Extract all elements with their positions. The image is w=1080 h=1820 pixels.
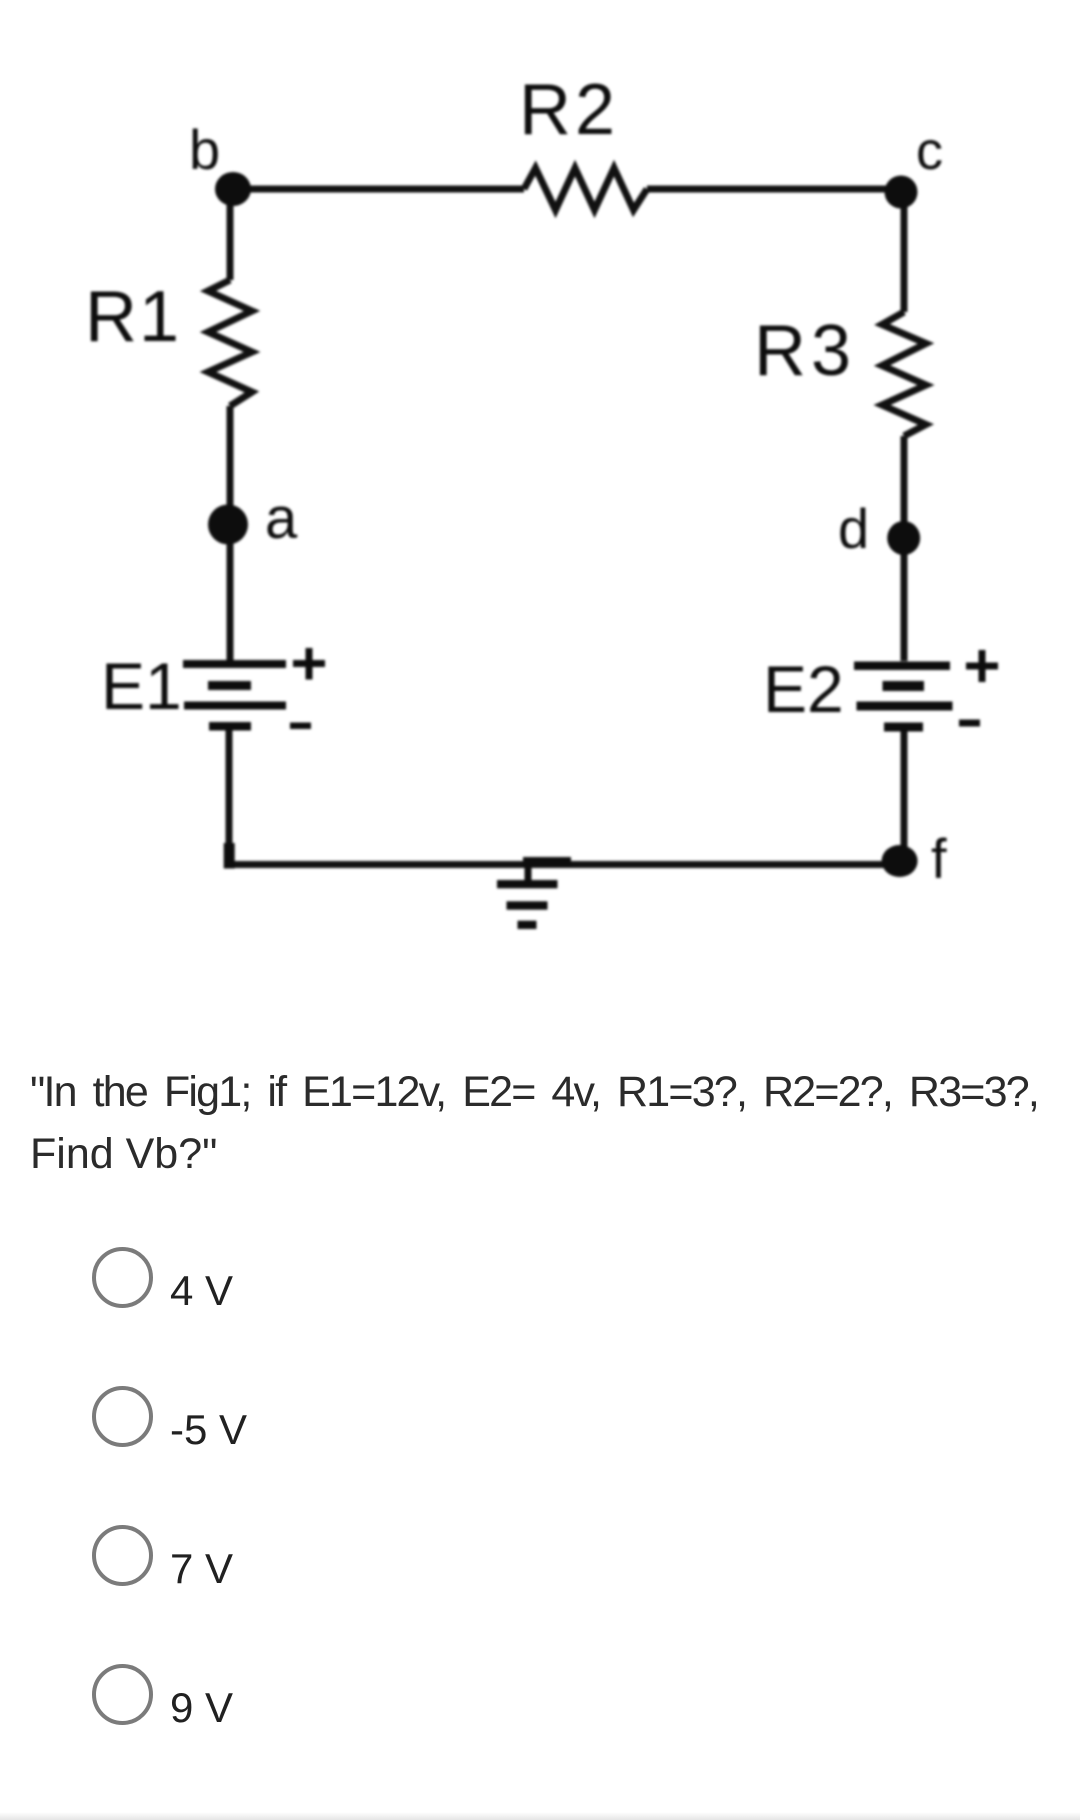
wire R1 to node a to E1 <box>227 406 234 661</box>
svg-text:R3: R3 <box>754 311 856 391</box>
wire top-left: b to R2 <box>233 186 524 193</box>
svg-text:E2: E2 <box>763 652 844 726</box>
svg-text:E1: E1 <box>101 649 182 723</box>
svg-text:a: a <box>265 486 298 551</box>
E1 minus sign <box>290 723 311 730</box>
wire E2 to node f <box>901 730 908 858</box>
wire E1 to bottom-left corner <box>226 729 233 861</box>
resistor R2 <box>524 168 647 210</box>
wire c down to R3 <box>901 192 908 312</box>
node c <box>885 176 918 209</box>
wire R3 to node d to E2 <box>901 436 908 661</box>
wire b down to R1 <box>227 189 234 280</box>
E2 minus sign <box>959 720 980 727</box>
node f <box>882 845 918 877</box>
ground symbol <box>523 857 571 866</box>
resistor R1 <box>208 280 252 406</box>
svg-text:d: d <box>838 497 869 560</box>
E1 plus sign <box>306 648 313 680</box>
svg-text:f: f <box>931 827 947 890</box>
battery E1 plate short bottom <box>209 722 251 731</box>
svg-text:b: b <box>189 118 220 181</box>
svg-text:c: c <box>916 121 943 181</box>
battery E2 plate short mid <box>883 681 925 691</box>
circuit figure <box>0 0 1080 1010</box>
option 1 <box>92 1247 153 1308</box>
node a <box>208 505 248 545</box>
bottom edge shade <box>0 1812 1080 1820</box>
option 2 <box>92 1386 153 1447</box>
battery E2 plate long top <box>854 662 950 671</box>
resistor R3 <box>882 312 926 436</box>
battery E2 plate long lower <box>857 702 953 711</box>
battery E1 plate short mid <box>208 681 251 690</box>
battery E1 plate long top <box>183 660 286 668</box>
wire bottom <box>226 861 900 868</box>
svg-text:R2: R2 <box>519 70 619 150</box>
question text <box>30 1061 1038 1185</box>
battery E2 plate short bottom <box>884 723 923 732</box>
wire R2 to c <box>647 186 901 193</box>
corner stub bottom-left <box>224 843 235 869</box>
E2 plus sign <box>979 650 986 682</box>
option 3 <box>92 1525 153 1586</box>
node d <box>887 521 920 555</box>
option 4 <box>92 1664 153 1725</box>
node b <box>215 172 251 206</box>
svg-text:R1: R1 <box>85 277 181 357</box>
battery E1 plate long lower <box>184 702 286 710</box>
